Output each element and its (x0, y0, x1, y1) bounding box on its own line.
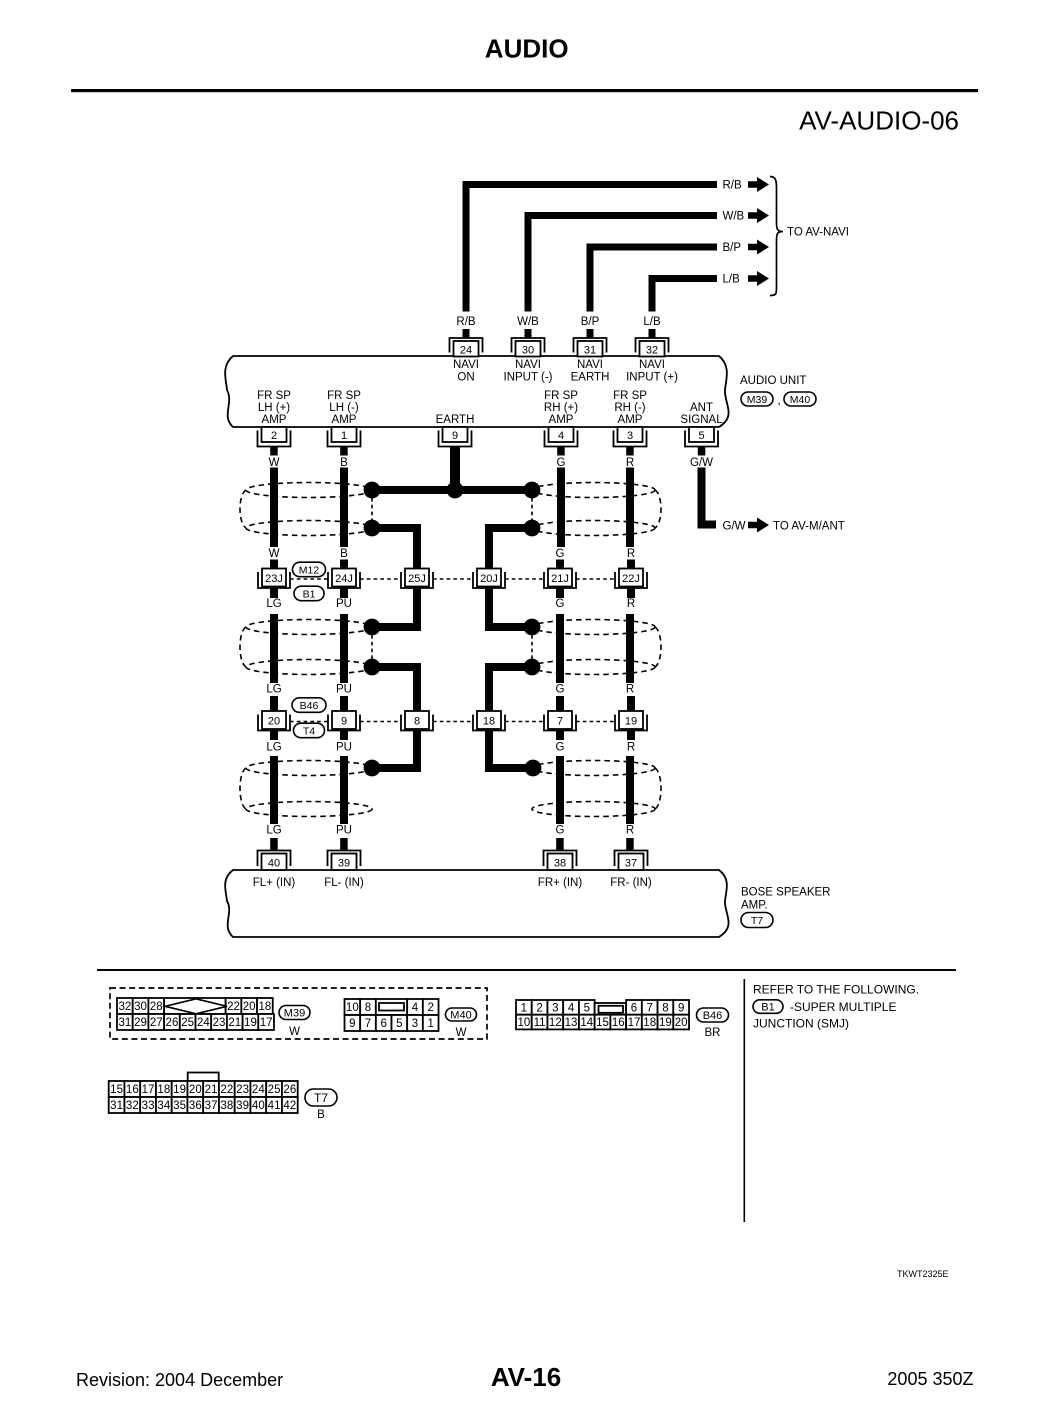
svg-text:B/P: B/P (581, 316, 600, 328)
svg-text:NAVI: NAVI (639, 359, 665, 371)
shield dot row B lower left (364, 659, 381, 676)
svg-text:8: 8 (662, 1002, 668, 1014)
svg-text:24: 24 (252, 1084, 265, 1096)
svg-text:16: 16 (126, 1084, 139, 1096)
wire stub into bose connector (270, 838, 278, 851)
svg-text:24: 24 (460, 345, 472, 357)
svg-text:5: 5 (698, 430, 704, 442)
svg-text:38: 38 (220, 1100, 233, 1112)
wire R through shield row B (626, 614, 634, 683)
svg-text:M39: M39 (747, 394, 768, 406)
connector ref T4 (294, 723, 325, 738)
svg-text:3: 3 (552, 1002, 558, 1014)
svg-text:9: 9 (349, 1018, 355, 1030)
wire stub L/B into connector (649, 329, 656, 339)
svg-text:LG: LG (266, 742, 281, 754)
svg-text:R: R (627, 742, 635, 754)
in-line connector 20J (473, 569, 505, 589)
connector pin 40 (bose amp) (258, 851, 291, 871)
svg-text:8: 8 (365, 1002, 371, 1014)
vertical divider line (744, 979, 746, 1222)
svg-text:B1: B1 (303, 588, 316, 600)
svg-text:AV-16: AV-16 (491, 1362, 561, 1392)
svg-text:17: 17 (260, 1017, 273, 1029)
wire PU through shield row C (340, 756, 348, 824)
svg-text:M40: M40 (450, 1009, 471, 1021)
arrow to AV-NAVI (B/P) (748, 240, 769, 255)
wire elbow right shield to connector 18 (489, 667, 532, 712)
svg-text:40: 40 (268, 858, 280, 870)
svg-text:15: 15 (110, 1084, 123, 1096)
svg-text:41: 41 (268, 1100, 281, 1112)
svg-text:30: 30 (134, 1001, 147, 1013)
svg-text:LG: LG (266, 684, 281, 696)
shield dot row B lower right (524, 659, 541, 676)
dashed connector link 18-7 (505, 721, 544, 723)
wire stub below connector 20 (270, 731, 278, 741)
svg-text:B: B (340, 548, 348, 560)
wire stub into connector 20 (270, 696, 278, 712)
connector ref B1 (294, 586, 324, 601)
wire stub B/P into connector (587, 329, 594, 339)
svg-text:31: 31 (118, 1017, 131, 1029)
svg-text:AMP.: AMP. (741, 900, 768, 912)
svg-text:AV-AUDIO-06: AV-AUDIO-06 (799, 106, 959, 136)
in-line connector 19 (615, 711, 647, 731)
svg-text:32: 32 (126, 1100, 139, 1112)
svg-text:18: 18 (643, 1017, 656, 1029)
svg-text:7: 7 (365, 1018, 371, 1030)
connector pin 32 (audio unit top) (636, 338, 669, 357)
svg-text:R: R (627, 598, 635, 610)
svg-text:W: W (456, 1027, 467, 1039)
svg-text:G/W: G/W (723, 521, 746, 533)
wire stub W/B into connector (525, 329, 532, 339)
svg-text:1: 1 (341, 430, 347, 442)
in-line connector 22J (615, 569, 647, 589)
connector ref M39 (face) (279, 1006, 310, 1020)
wire stub into 24J (340, 560, 348, 570)
shield cylinder row A right (around G and R) (532, 483, 661, 536)
dashed connector link 24J-25J (360, 578, 401, 580)
svg-text:R: R (626, 825, 634, 837)
connector ref B46 (face) (697, 1008, 729, 1022)
svg-text:PU: PU (336, 598, 352, 610)
svg-text:16: 16 (612, 1017, 625, 1029)
connector pin 1 (audio unit bottom) (328, 427, 361, 447)
svg-text:35: 35 (173, 1100, 186, 1112)
in-line connector 9 (328, 711, 360, 731)
svg-text:AUDIO UNIT: AUDIO UNIT (740, 375, 806, 387)
svg-text:32: 32 (646, 345, 658, 357)
svg-text:21J: 21J (551, 573, 569, 585)
svg-text:RH (-): RH (-) (614, 402, 645, 414)
svg-text:33: 33 (142, 1100, 155, 1112)
wire stub below connector 9 (340, 731, 348, 741)
connector pin 9 (audio unit bottom) (439, 427, 472, 447)
wire elbow from right shield to 20J (489, 528, 532, 569)
connector pin 37 (bose amp) (615, 851, 648, 871)
svg-text:38: 38 (554, 858, 566, 870)
svg-text:RH (+): RH (+) (544, 402, 578, 414)
wire stub into connector 7 (556, 696, 564, 712)
junction dot EARTH row A (447, 482, 464, 499)
wire elbow connector 8 to left shield row C (372, 731, 417, 769)
svg-text:AMP: AMP (618, 414, 643, 426)
wire G through shield row A (557, 468, 565, 548)
svg-text:18: 18 (157, 1084, 170, 1096)
svg-text:25: 25 (268, 1084, 281, 1096)
wire stub pin / label B (340, 447, 348, 456)
wire R through shield row C (626, 756, 634, 824)
svg-text:30: 30 (522, 345, 534, 357)
wire EARTH (thick) from pin 9 (450, 447, 460, 491)
svg-text:AMP: AMP (262, 414, 287, 426)
shield cylinder row B left (around LG and PU) (240, 620, 372, 675)
shield dot row B upper left (364, 619, 381, 636)
svg-text:15: 15 (596, 1017, 609, 1029)
svg-text:2: 2 (271, 430, 277, 442)
svg-text:LH (-): LH (-) (329, 402, 359, 414)
svg-text:LG: LG (266, 825, 281, 837)
arrow to AV-NAVI (W/B) (748, 208, 769, 223)
svg-text:B: B (317, 1109, 325, 1121)
arrow to AV-NAVI (L/B) (748, 271, 769, 286)
svg-text:G: G (556, 825, 565, 837)
wire stub pin / label G (557, 447, 565, 456)
svg-text:TKWT2325E: TKWT2325E (897, 1269, 949, 1279)
dashed connector link 9-8 (360, 721, 401, 723)
svg-text:SIGNAL: SIGNAL (680, 414, 723, 426)
svg-text:36: 36 (189, 1100, 202, 1112)
connector face T7 grid (109, 1081, 298, 1113)
in-line connector 8 (401, 711, 433, 731)
shield dot row A lower left (364, 520, 381, 537)
svg-text:19: 19 (173, 1084, 186, 1096)
svg-text:R: R (626, 684, 634, 696)
wire stub into bose connector (340, 838, 348, 851)
svg-text:23: 23 (213, 1017, 226, 1029)
svg-text:25: 25 (181, 1017, 194, 1029)
connector pin 2 (audio unit bottom) (258, 427, 291, 447)
audio unit box outline (225, 356, 728, 427)
svg-text:19: 19 (659, 1017, 672, 1029)
svg-text:19: 19 (244, 1017, 257, 1029)
dashed link right dots row A (531, 498, 533, 520)
svg-text:10: 10 (346, 1002, 359, 1014)
svg-text:FR SP: FR SP (613, 390, 647, 402)
in-line connector 25J (401, 569, 433, 589)
connector face M39 grid (117, 998, 274, 1030)
dashed connector link 25J-20J (433, 578, 473, 580)
svg-text:3: 3 (627, 430, 633, 442)
wire stub below connector 7 (556, 731, 564, 741)
connector pin 5 (audio unit bottom) (685, 427, 718, 447)
dashed connector link 20J-21J (505, 578, 544, 580)
svg-text:24J: 24J (335, 573, 353, 585)
connector face B46 grid (516, 1000, 689, 1029)
svg-text:23J: 23J (265, 573, 283, 585)
wire stub below 21J (556, 588, 564, 598)
svg-text:B: B (340, 457, 348, 469)
in-line connector 20 (258, 711, 290, 731)
svg-text:INPUT (-): INPUT (-) (504, 372, 553, 384)
connector pin 24 (audio unit top) (450, 338, 483, 357)
wire B/P to AV-NAVI (590, 247, 717, 312)
svg-text:AUDIO: AUDIO (485, 34, 569, 64)
connector pin 38 (bose amp) (544, 851, 577, 871)
svg-text:R: R (627, 548, 635, 560)
connector ref M12 (293, 562, 326, 577)
svg-text:G: G (556, 742, 565, 754)
dashed connector link 21J-22J (576, 578, 615, 580)
svg-text:20: 20 (268, 716, 280, 728)
svg-text:20J: 20J (480, 573, 498, 585)
svg-text:INPUT (+): INPUT (+) (626, 372, 678, 384)
svg-text:26: 26 (166, 1017, 179, 1029)
dashed group box around M39 and M40 (110, 988, 487, 1039)
svg-text:T7: T7 (751, 915, 763, 927)
header rule (71, 89, 978, 92)
svg-text:18: 18 (483, 716, 495, 728)
svg-text:4: 4 (568, 1002, 575, 1014)
svg-text:21: 21 (228, 1017, 241, 1029)
svg-text:R/B: R/B (723, 180, 743, 192)
svg-text:40: 40 (252, 1100, 265, 1112)
svg-text:TO AV-NAVI: TO AV-NAVI (787, 227, 849, 239)
svg-text:2: 2 (427, 1002, 433, 1014)
svg-text:REFER TO THE FOLLOWING.: REFER TO THE FOLLOWING. (753, 983, 919, 997)
connector pin 4 (audio unit bottom) (545, 427, 578, 447)
svg-text:PU: PU (336, 825, 352, 837)
svg-text:17: 17 (628, 1017, 641, 1029)
svg-text:PU: PU (336, 742, 352, 754)
svg-text:31: 31 (110, 1100, 123, 1112)
svg-text:7: 7 (557, 716, 563, 728)
svg-text:2005 350Z: 2005 350Z (887, 1369, 973, 1389)
wire G/W to AV-M/ANT (702, 468, 717, 525)
svg-text:3: 3 (412, 1018, 418, 1030)
svg-text:ON: ON (457, 372, 474, 384)
wire PU through shield row B (340, 614, 348, 683)
svg-text:17: 17 (142, 1084, 155, 1096)
wire G through shield row C (556, 756, 564, 824)
svg-text:ANT: ANT (690, 402, 713, 414)
connector ref T7 (741, 913, 773, 928)
connector ref M40 (face) (446, 1008, 477, 1021)
wire elbow connector 18 to right shield row C (489, 731, 533, 769)
shield dot row C right (525, 760, 542, 777)
connector face T7 tab (188, 1073, 219, 1082)
svg-text:11: 11 (534, 1017, 546, 1029)
wire B through shield row A (340, 468, 348, 548)
svg-text:FR SP: FR SP (544, 390, 578, 402)
svg-text:5: 5 (584, 1002, 590, 1014)
svg-text:L/B: L/B (643, 316, 661, 328)
svg-text:22J: 22J (622, 573, 640, 585)
svg-text:M39: M39 (284, 1007, 305, 1019)
dashed connector link 7-19 (576, 721, 615, 723)
svg-text:EARTH: EARTH (571, 372, 610, 384)
wire stub below 23J (270, 588, 278, 598)
svg-text:R/B: R/B (456, 316, 476, 328)
svg-text:21: 21 (205, 1084, 218, 1096)
wire R through shield row A (626, 468, 634, 548)
wire stub into bose connector (626, 838, 634, 851)
shield cylinder row C left (around LG and PU) (240, 761, 372, 817)
wire stub pin / label R (626, 447, 634, 456)
svg-text:7: 7 (647, 1002, 653, 1014)
in-line connector 18 (473, 711, 505, 731)
wire stub below 22J (627, 588, 635, 598)
svg-text:9: 9 (452, 430, 458, 442)
wire stub below connector 19 (627, 731, 635, 741)
svg-text:39: 39 (338, 858, 350, 870)
shield dot row C left (364, 760, 381, 777)
svg-text:1: 1 (427, 1018, 433, 1030)
connector face M40 grid (345, 999, 439, 1031)
svg-text:AMP: AMP (332, 414, 357, 426)
svg-text:FR SP: FR SP (257, 390, 291, 402)
wire elbow 25J to left shield row B (372, 588, 417, 627)
connector ref B46 (292, 698, 326, 713)
wire stub pin / label W (270, 447, 278, 456)
svg-text:BR: BR (705, 1027, 721, 1039)
svg-text:18: 18 (258, 1001, 271, 1013)
wire stub into connector 9 (340, 696, 348, 712)
wire stub into connector 19 (627, 696, 635, 712)
svg-text:W: W (269, 548, 280, 560)
bose speaker amp box outline (225, 870, 728, 937)
wire stub into 21J (556, 560, 564, 570)
svg-text:FL+ (IN): FL+ (IN) (253, 877, 296, 889)
svg-text:Revision: 2004 December: Revision: 2004 December (76, 1370, 283, 1390)
svg-text:32: 32 (118, 1001, 131, 1013)
svg-text:19: 19 (625, 716, 637, 728)
svg-text:23: 23 (236, 1084, 249, 1096)
svg-text:NAVI: NAVI (577, 359, 603, 371)
svg-text:W: W (289, 1026, 300, 1038)
svg-text:9: 9 (678, 1002, 684, 1014)
junction dot left shield row A (364, 482, 381, 499)
brace grouping AV-NAVI wires (770, 177, 783, 296)
in-line connector 7 (544, 711, 576, 731)
svg-text:20: 20 (243, 1001, 256, 1013)
svg-text:EARTH: EARTH (436, 414, 475, 426)
svg-text:B/P: B/P (723, 242, 742, 254)
dashed link right dots row B (531, 635, 533, 659)
shield cylinder row A left (around W and B) (240, 483, 372, 536)
svg-text:FL- (IN): FL- (IN) (324, 877, 364, 889)
wire stub into 23J (270, 560, 278, 570)
svg-text:37: 37 (205, 1100, 218, 1112)
svg-text:22: 22 (220, 1084, 233, 1096)
wire stub R/B into connector (463, 329, 470, 339)
svg-text:T7: T7 (314, 1091, 328, 1105)
svg-text:34: 34 (157, 1100, 170, 1112)
connector ref M40 (784, 392, 816, 406)
in-line connector 21J (544, 569, 576, 589)
svg-text:24: 24 (197, 1017, 210, 1029)
svg-text:PU: PU (336, 684, 352, 696)
svg-text:26: 26 (283, 1084, 296, 1096)
svg-text:10: 10 (517, 1017, 530, 1029)
junction dot right shield row A (524, 482, 541, 499)
svg-text:31: 31 (584, 345, 596, 357)
wire stub into bose connector (556, 838, 564, 851)
shield dot row B upper right (524, 619, 541, 636)
wire LG through shield row B (270, 614, 278, 683)
wire stub into 22J (627, 560, 635, 570)
svg-text:28: 28 (150, 1001, 163, 1013)
svg-text:R: R (626, 457, 634, 469)
wire elbow 20J to right shield row B (489, 588, 532, 627)
wire stub pin / label G/W (698, 447, 706, 456)
svg-text:6: 6 (631, 1002, 637, 1014)
svg-text:LG: LG (266, 598, 281, 610)
connector pin 31 (audio unit top) (574, 338, 607, 357)
arrow to AV-NAVI (R/B) (748, 177, 769, 192)
dashed link left dots row B (371, 635, 373, 659)
svg-text:LH (+): LH (+) (258, 402, 290, 414)
connector ref T7 (face) (305, 1089, 337, 1106)
svg-text:14: 14 (580, 1017, 593, 1029)
wire R/B to AV-NAVI (466, 185, 717, 312)
svg-text:M12: M12 (299, 564, 320, 576)
svg-text:AMP: AMP (549, 414, 574, 426)
svg-text:L/B: L/B (723, 274, 741, 286)
svg-text:FR+ (IN): FR+ (IN) (538, 877, 583, 889)
svg-text:G: G (557, 457, 566, 469)
shield drain bus wire (372, 486, 532, 494)
svg-text:G: G (556, 598, 565, 610)
svg-text:B1: B1 (761, 1001, 774, 1013)
svg-text:G: G (556, 548, 565, 560)
svg-text:20: 20 (189, 1084, 202, 1096)
dashed connector link 23J-24J (290, 578, 328, 580)
svg-text:W/B: W/B (517, 316, 539, 328)
wire L/B to AV-NAVI (652, 279, 717, 312)
in-line connector 24J (328, 569, 360, 589)
svg-text:FR- (IN): FR- (IN) (610, 877, 652, 889)
svg-text:39: 39 (236, 1100, 249, 1112)
arrow to AV-M/ANT (748, 518, 769, 533)
dashed connector link 20-9 (290, 721, 328, 723)
svg-text:4: 4 (412, 1002, 419, 1014)
svg-text:13: 13 (565, 1017, 578, 1029)
svg-text:G/W: G/W (690, 457, 713, 469)
svg-text:12: 12 (549, 1017, 562, 1029)
svg-text:5: 5 (396, 1018, 402, 1030)
svg-text:22: 22 (227, 1001, 240, 1013)
wire LG through shield row C (270, 756, 278, 824)
svg-text:,: , (778, 395, 781, 407)
connector pin 39 (bose amp) (328, 851, 361, 871)
wire W through shield row A (270, 468, 278, 548)
dashed connector link 8-18 (433, 721, 473, 723)
svg-text:1: 1 (521, 1002, 527, 1014)
svg-text:BOSE SPEAKER: BOSE SPEAKER (741, 887, 830, 899)
wire elbow from left shield to 25J (372, 528, 417, 569)
svg-text:W/B: W/B (723, 211, 745, 223)
svg-text:29: 29 (134, 1017, 147, 1029)
svg-text:9: 9 (341, 716, 347, 728)
svg-text:NAVI: NAVI (453, 359, 479, 371)
in-line connector 23J (258, 569, 290, 589)
svg-text:TO AV-M/ANT: TO AV-M/ANT (773, 521, 845, 533)
svg-text:-SUPER MULTIPLE: -SUPER MULTIPLE (790, 1000, 896, 1014)
svg-text:M40: M40 (790, 394, 811, 406)
